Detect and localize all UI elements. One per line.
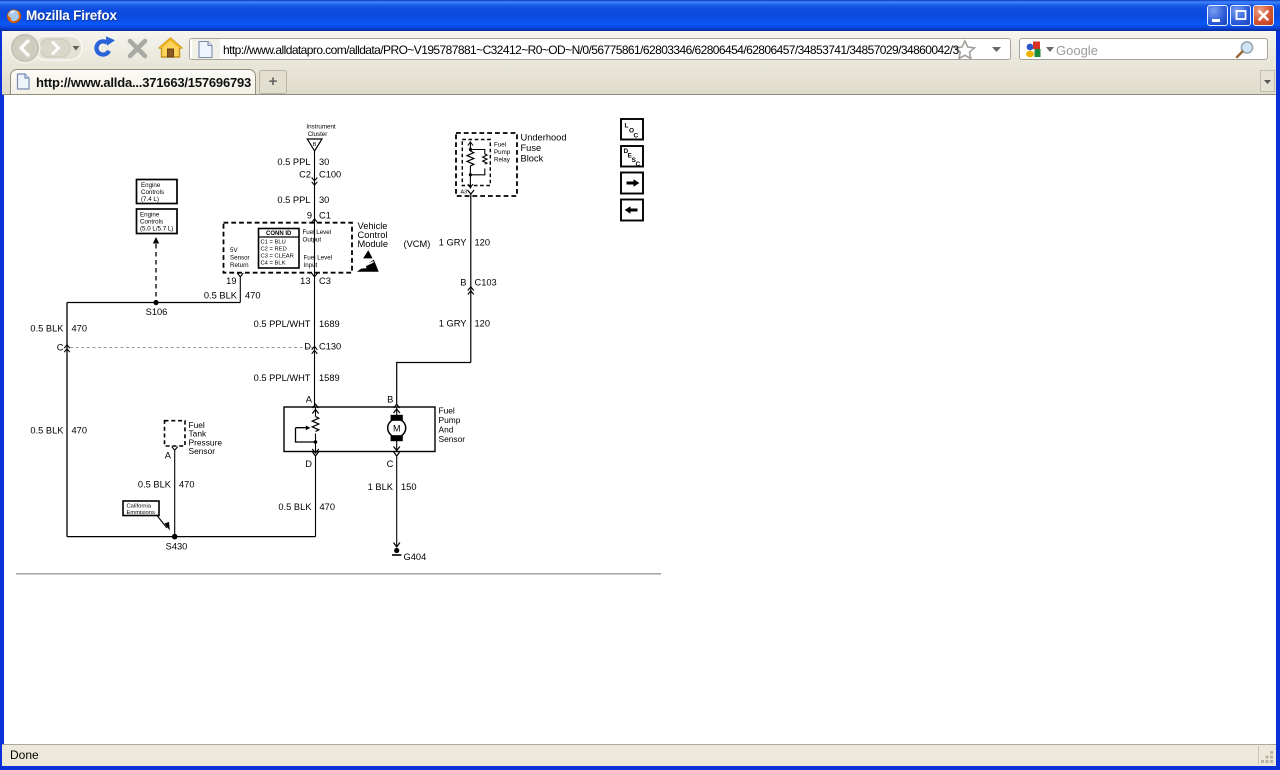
svg-text:D: D [305,459,312,469]
svg-text:Block: Block [521,154,544,164]
svg-text:Relay: Relay [494,157,511,164]
svg-text:B: B [313,142,317,148]
svg-text:S106: S106 [146,307,168,317]
svg-text:Controls: Controls [141,189,164,196]
svg-text:Sensor: Sensor [439,434,466,444]
svg-text:Sensor: Sensor [189,446,216,456]
svg-text:L: L [625,123,629,130]
svg-text:120: 120 [475,238,491,248]
svg-text:0.5 BLK: 0.5 BLK [138,480,172,490]
svg-text:Controls: Controls [140,219,163,226]
svg-text:C103: C103 [475,278,497,288]
svg-text:C2 = RED: C2 = RED [261,247,287,253]
svg-text:C2: C2 [299,170,311,180]
svg-text:A: A [306,395,313,405]
svg-text:Return: Return [230,262,249,269]
svg-text:0.5 PPL: 0.5 PPL [277,195,310,205]
svg-text:470: 470 [72,426,88,436]
svg-text:C3 = CLEAR: C3 = CLEAR [261,254,294,260]
svg-text:Pump: Pump [439,415,461,425]
svg-text:C1: C1 [319,211,331,221]
svg-text:C1 = BLU: C1 = BLU [261,240,286,246]
svg-text:Engine: Engine [140,212,160,219]
svg-text:C: C [636,161,641,168]
svg-text:S430: S430 [166,542,188,552]
svg-text:120: 120 [475,319,491,329]
svg-text:Pump: Pump [494,149,511,156]
svg-text:A3: A3 [461,190,468,196]
svg-text:Fuse: Fuse [521,143,542,153]
svg-text:Underhood: Underhood [521,133,567,143]
svg-text:1 BLK: 1 BLK [368,482,394,492]
svg-text:Cluster: Cluster [308,131,328,138]
svg-text:Input: Input [304,262,318,269]
svg-text:Fuel: Fuel [439,406,455,416]
svg-text:13: 13 [300,276,310,286]
svg-text:M: M [393,424,401,434]
svg-text:470: 470 [72,324,88,334]
svg-text:C100: C100 [319,170,341,180]
svg-text:Fuel: Fuel [494,142,506,149]
svg-text:Fuel Level: Fuel Level [303,229,332,236]
svg-text:And: And [439,425,454,435]
svg-text:470: 470 [320,502,336,512]
svg-text:Module: Module [358,239,389,249]
svg-text:0.5 BLK: 0.5 BLK [30,324,64,334]
svg-text:G404: G404 [404,552,427,562]
svg-text:C: C [57,343,64,353]
svg-text:(5.0 L/5.7 L): (5.0 L/5.7 L) [140,226,173,233]
svg-text:C: C [634,133,639,140]
svg-text:Instrument: Instrument [306,124,336,131]
svg-text:1589: 1589 [319,373,340,383]
svg-text:1 GRY: 1 GRY [439,319,467,329]
svg-text:0.5 PPL/WHT: 0.5 PPL/WHT [254,319,311,329]
svg-text:CONN ID: CONN ID [266,231,292,237]
svg-text:C4 = BLK: C4 = BLK [261,261,286,267]
svg-text:5V: 5V [230,247,238,254]
svg-text:1 GRY: 1 GRY [439,238,467,248]
svg-text:9: 9 [307,211,312,221]
svg-text:0.5 BLK: 0.5 BLK [204,291,238,301]
svg-text:(VCM): (VCM) [404,239,431,249]
svg-text:Output: Output [303,237,322,244]
svg-text:Engine: Engine [141,182,161,189]
svg-text:C130: C130 [319,342,341,352]
svg-text:California: California [127,504,152,510]
svg-text:1689: 1689 [319,319,340,329]
svg-text:470: 470 [245,291,261,301]
svg-text:0.5 BLK: 0.5 BLK [278,502,312,512]
svg-text:A: A [165,451,172,461]
svg-text:C: C [387,459,394,469]
svg-text:470: 470 [179,480,195,490]
svg-text:B: B [460,278,466,288]
svg-text:Emmisions: Emmisions [127,510,155,516]
svg-text:0.5 PPL/WHT: 0.5 PPL/WHT [254,373,311,383]
svg-text:30: 30 [319,195,329,205]
svg-text:0.5 BLK: 0.5 BLK [30,426,64,436]
svg-text:D: D [304,342,311,352]
svg-text:Fuel Level: Fuel Level [304,255,333,262]
svg-text:(7.4 L): (7.4 L) [141,196,159,203]
svg-text:0.5 PPL: 0.5 PPL [277,157,310,167]
svg-text:B: B [387,395,393,405]
svg-text:C3: C3 [319,276,331,286]
svg-text:150: 150 [401,482,417,492]
svg-text:Sensor: Sensor [230,255,250,262]
svg-text:19: 19 [226,276,236,286]
svg-text:30: 30 [319,157,329,167]
